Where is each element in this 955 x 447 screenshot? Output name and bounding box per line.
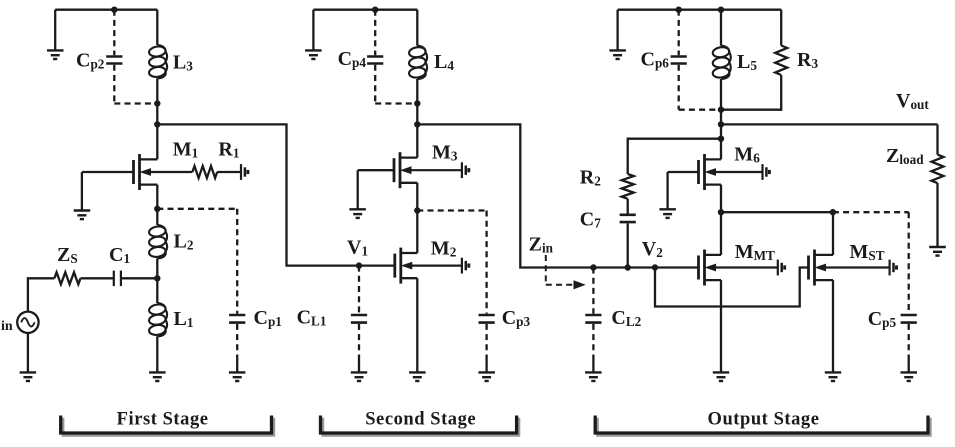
- ground M6 gate: [659, 172, 676, 218]
- svg-text:CL2: CL2: [611, 307, 641, 329]
- svg-text:Cp6: Cp6: [641, 49, 670, 71]
- wire L4 bottom to drain node: [416, 79, 418, 158]
- label Zin: [529, 234, 554, 256]
- node Cp6 tap: [676, 7, 682, 13]
- svg-text:L3: L3: [173, 52, 193, 74]
- node V1: [356, 262, 362, 268]
- wire C7 to V2: [627, 223, 629, 267]
- svg-text:Zin: Zin: [529, 234, 554, 256]
- label Output Stage bracket: [595, 410, 930, 436]
- wire Vin to Zs: [28, 278, 55, 312]
- capacitor CL1: [351, 266, 367, 361]
- ground first stage supply: [47, 10, 64, 59]
- svg-text:Vout: Vout: [896, 90, 929, 112]
- label R1: [218, 139, 239, 161]
- node CL2 tap: [590, 264, 596, 270]
- wire M6 source to MMT drain: [720, 185, 722, 255]
- label Cp2: [76, 50, 105, 72]
- svg-text:C1: C1: [109, 244, 130, 266]
- wire L5 top lead: [720, 10, 722, 46]
- transistor MST: [809, 250, 890, 286]
- ground output stage supply: [609, 10, 626, 59]
- svg-text:MST: MST: [850, 241, 885, 263]
- wire L4 top: [416, 10, 418, 46]
- node L5 top: [718, 7, 724, 13]
- label L3: [173, 52, 193, 74]
- ground second stage supply: [305, 10, 322, 59]
- svg-text:R1: R1: [218, 139, 239, 161]
- svg-text:in: in: [1, 319, 13, 334]
- node V2: [652, 264, 658, 270]
- svg-text:Output Stage: Output Stage: [708, 410, 820, 430]
- inductor L2: [148, 225, 167, 258]
- svg-text:Cp2: Cp2: [76, 50, 105, 72]
- svg-text:Cp1: Cp1: [254, 307, 282, 329]
- wire L3 top: [156, 10, 158, 45]
- transistor M6: [699, 154, 763, 190]
- transistor M1: [134, 154, 193, 190]
- wire VDD rail first stage: [55, 9, 157, 11]
- wire R2 to C7: [627, 199, 629, 214]
- label Cp3: [502, 307, 531, 329]
- svg-text:Cp4: Cp4: [338, 48, 367, 70]
- ground Cp3: [478, 360, 495, 381]
- wire MMT source to ground: [720, 280, 722, 372]
- label V1: [347, 237, 368, 259]
- label Vout: [896, 90, 929, 112]
- svg-text:ZS: ZS: [57, 244, 78, 266]
- node L4/Cp4 junction: [414, 100, 420, 106]
- wire Zin arrow (dashed): [546, 255, 586, 289]
- wire VDD rail second stage: [313, 9, 417, 11]
- wire Vout: [721, 123, 938, 125]
- transistor MMT: [699, 250, 778, 286]
- wire L3 bottom to drain node: [156, 78, 158, 159]
- svg-text:Zload: Zload: [886, 145, 924, 167]
- capacitor Cp3: [479, 211, 495, 362]
- bias source M6 gate bias: [763, 164, 770, 180]
- node C7 tap: [625, 264, 631, 270]
- capacitor Cp4: [367, 10, 383, 104]
- wire Zs to C1: [81, 277, 114, 279]
- svg-text:M6: M6: [734, 144, 760, 166]
- label M3: [432, 142, 458, 164]
- svg-text:M1: M1: [173, 139, 198, 161]
- resistor R3: [775, 46, 787, 76]
- wire node to Cp1 (dashed): [157, 208, 237, 210]
- label R3: [797, 49, 818, 71]
- wire MST drain up: [832, 212, 834, 255]
- svg-text:L2: L2: [174, 231, 194, 253]
- label Cp5: [868, 308, 897, 330]
- ground Cp5: [901, 360, 918, 381]
- svg-text:L5: L5: [737, 51, 757, 73]
- label L5: [737, 51, 757, 73]
- label Zload: [886, 145, 924, 167]
- bias source MMT bias: [778, 260, 785, 276]
- bias source MST bias: [890, 260, 897, 276]
- label CL2: [611, 307, 641, 329]
- resistor Zload: [932, 155, 944, 184]
- ground MMT source: [713, 372, 729, 381]
- label M1: [173, 139, 198, 161]
- wire drain to R2: [628, 139, 721, 174]
- label Cp6: [641, 49, 670, 71]
- node Cp4 tap: [372, 7, 378, 13]
- wire MST source to ground: [832, 280, 834, 372]
- bias source M3 gate bias: [462, 162, 469, 178]
- svg-text:V1: V1: [347, 237, 368, 259]
- label MMT: [735, 241, 775, 263]
- label ZS: [57, 244, 78, 266]
- wire Vin to ground: [27, 333, 29, 372]
- svg-text:R2: R2: [580, 167, 601, 189]
- wire M3 source to M2 drain: [416, 183, 418, 253]
- label M6: [734, 144, 760, 166]
- svg-text:C7: C7: [580, 209, 601, 231]
- label C7: [580, 209, 601, 231]
- svg-text:V2: V2: [642, 238, 663, 260]
- svg-text:Cp5: Cp5: [868, 308, 897, 330]
- ground Cp1: [229, 360, 246, 381]
- capacitor Cp6: [671, 10, 687, 110]
- capacitor C1: [114, 271, 121, 287]
- wire L2 top lead: [156, 209, 158, 225]
- wire M1 source to node: [156, 185, 158, 209]
- label V2: [642, 238, 663, 260]
- label Vin (in): [1, 319, 13, 334]
- capacitor Cp5: [901, 212, 917, 361]
- wire second to output stage: [417, 124, 698, 267]
- wire C1 to node: [121, 277, 157, 279]
- ground L1: [149, 372, 166, 381]
- svg-text:First Stage: First Stage: [117, 410, 209, 430]
- node input matching: [154, 275, 160, 281]
- node Cp2 tap: [111, 7, 117, 13]
- label M2: [431, 238, 457, 260]
- inductor L3: [148, 45, 167, 78]
- wire Cp6 to L5 bottom (dashed): [679, 109, 721, 111]
- node second stage drain: [414, 121, 420, 127]
- svg-text:L4: L4: [434, 51, 454, 73]
- svg-text:R3: R3: [797, 49, 818, 71]
- label CL1: [297, 307, 327, 329]
- svg-text:M2: M2: [431, 238, 457, 260]
- transistor M3: [394, 152, 462, 188]
- node first stage drain: [154, 121, 160, 127]
- resistor ZS: [54, 272, 80, 284]
- wire V1 to M2 gate: [359, 264, 395, 266]
- node cascode mid: [414, 207, 420, 213]
- wire R1 to bias: [217, 171, 241, 173]
- wire L1 to ground: [156, 336, 158, 372]
- capacitor Cp1: [229, 209, 245, 361]
- node MST drain: [830, 209, 836, 215]
- svg-text:CL1: CL1: [297, 307, 327, 329]
- wire M3 gate: [358, 169, 394, 171]
- ground M3 gate: [349, 170, 366, 218]
- bias source M2 gate bias: [462, 258, 469, 274]
- label Second Stage bracket: [321, 410, 519, 436]
- capacitor Cp2: [106, 10, 122, 104]
- wire mirror node to MST drain: [721, 211, 833, 213]
- wire Zload to ground: [936, 183, 938, 247]
- wire first to second stage: [157, 124, 359, 265]
- wire R3 bottom to node: [721, 75, 781, 110]
- ground Vin: [20, 372, 36, 381]
- wire Cp2 to L3 bottom (dashed): [114, 102, 157, 104]
- svg-text:M3: M3: [432, 142, 458, 164]
- label L2: [174, 231, 194, 253]
- resistor R2: [622, 174, 634, 199]
- wire M6 gate: [668, 171, 699, 173]
- svg-text:L1: L1: [174, 308, 194, 330]
- node M6 source / MMT drain: [718, 209, 724, 215]
- ground CL1: [351, 360, 367, 381]
- inductor L4: [408, 46, 427, 79]
- ground M2 source: [409, 372, 426, 381]
- label First Stage bracket: [61, 410, 274, 436]
- ground MST source: [825, 372, 841, 381]
- node R2 branch: [718, 136, 724, 142]
- ground CL2: [585, 360, 602, 381]
- wire L2 bottom to input node: [156, 258, 158, 278]
- label L1: [174, 308, 194, 330]
- node L5/R3/Cp6 junction: [718, 107, 724, 113]
- svg-text:Second Stage: Second Stage: [365, 410, 476, 430]
- resistor R1: [192, 166, 217, 178]
- label R2: [580, 167, 601, 189]
- wire M1 gate: [82, 171, 134, 173]
- wire VDD rail output stage: [618, 9, 782, 11]
- label Cp4: [338, 48, 367, 70]
- capacitor CL2: [585, 268, 601, 362]
- node L3/Cp2 junction: [154, 100, 160, 106]
- wire V2 to MST gate: [655, 268, 809, 307]
- wire cascode node to Cp3 (dashed): [417, 209, 486, 211]
- wire M2 source to ground: [416, 278, 418, 372]
- wire L5 bottom to M6 drain: [720, 79, 722, 159]
- wire input node to L1: [156, 278, 158, 303]
- ground Zload: [929, 247, 946, 256]
- node M1 source / L2 top: [154, 206, 160, 212]
- capacitor C7: [620, 215, 636, 222]
- wire Vout to Zload: [936, 124, 938, 154]
- label L4: [434, 51, 454, 73]
- svg-text:MMT: MMT: [735, 241, 775, 263]
- svg-text:Cp3: Cp3: [502, 307, 531, 329]
- inductor L5: [712, 46, 731, 79]
- source Vin: [17, 312, 38, 333]
- node Vout branch: [718, 121, 724, 127]
- label C1: [109, 244, 130, 266]
- inductor L1: [148, 303, 167, 336]
- label MST: [850, 241, 885, 263]
- wire mirror node to Cp5 (dashed): [833, 211, 909, 213]
- label Cp1: [254, 307, 282, 329]
- ground M1 gate: [74, 172, 91, 219]
- wire Cp4 to L4 bottom (dashed): [375, 102, 417, 104]
- transistor M2: [395, 248, 462, 284]
- bias source M1 gate bias: [241, 164, 248, 180]
- resistor R3 top lead: [780, 10, 782, 46]
